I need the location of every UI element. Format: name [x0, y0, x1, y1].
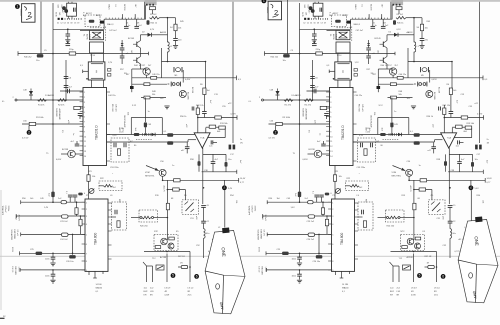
- tick out rail (left): [236, 76, 238, 81]
- capacitor C9 (right): [324, 113, 329, 115]
- resistor R23 (right): [321, 208, 324, 215]
- IC2 right dashed box (left): [111, 138, 129, 162]
- svg-text:0,77V: 0,77V: [477, 114, 483, 116]
- wire C4 bot (right): [313, 36, 315, 39]
- speaker switch SW1 (right): [403, 265, 411, 270]
- wire x167 out (right): [413, 254, 415, 283]
- capacitor C41 (right): [308, 201, 314, 204]
- ground C28 (left): [50, 280, 55, 283]
- head lower block (right): [336, 42, 350, 53]
- svg-text:AUFNAHME: AUFNAHME: [58, 109, 61, 121]
- tick in1 (right): [266, 200, 268, 204]
- capacitor C34 (right): [380, 133, 386, 136]
- resistor R6 (left): [203, 88, 206, 95]
- wire IC1 left tick (left): [83, 70, 89, 72]
- pot terminal a (right): [387, 217, 389, 219]
- svg-text:R1 47k: R1 47k: [38, 104, 44, 106]
- wire panel right a (right): [390, 2, 392, 20]
- wire D1 top (left): [30, 89, 32, 91]
- wire osc stub (right): [318, 2, 320, 4]
- wire rail y180 (left): [163, 179, 239, 181]
- trimmer P1 (right): [336, 189, 341, 194]
- wire node4 stub (left): [223, 180, 225, 185]
- wire L2 bot (left): [203, 238, 205, 258]
- wire IC1 top b (left): [103, 54, 105, 62]
- pot terminal b (left): [152, 217, 154, 219]
- pot terminal a (left): [140, 217, 142, 219]
- wire D2 right (right): [398, 34, 414, 36]
- capacitor C7 (right): [310, 85, 315, 87]
- wire cap col b (left): [136, 19, 138, 26]
- svg-text:0,65V: 0,65V: [303, 159, 309, 161]
- resistor R3 (right): [276, 122, 283, 125]
- svg-text:6: 6: [196, 275, 198, 279]
- wire C27 b (left): [52, 259, 54, 262]
- wire C22 bot (left): [74, 197, 76, 202]
- svg-text:C23 2u2: C23 2u2: [60, 221, 68, 223]
- svg-text:25m: 25m: [434, 295, 438, 297]
- wire main bus x53 (right): [299, 3, 301, 192]
- resistor R9 (right): [396, 16, 406, 19]
- svg-text:56k: 56k: [152, 94, 155, 96]
- svg-text:1n: 1n: [319, 133, 321, 135]
- svg-text:0,3 mV: 0,3 mV: [22, 138, 29, 140]
- svg-text:D1 AA113: D1 AA113: [45, 94, 55, 97]
- transistor T7 (right): [382, 42, 384, 48]
- resistor R19 (right): [413, 203, 416, 210]
- wire T10 down (right): [408, 176, 410, 180]
- transistor T12 (left): [161, 238, 168, 245]
- resistor R33 (right): [396, 7, 402, 10]
- ground eq (left): [164, 106, 169, 109]
- tick in4 (left): [19, 251, 21, 255]
- wire IC3 gnd pin (left): [94, 271, 96, 278]
- svg-text:0,77V: 0,77V: [231, 114, 237, 116]
- wire out rail (left): [144, 251, 190, 253]
- svg-text:REGLER: REGLER: [14, 267, 16, 276]
- svg-text:22k: 22k: [373, 112, 375, 115]
- svg-text:AC188: AC188: [407, 256, 414, 259]
- capacitor C27 (left): [51, 256, 56, 258]
- wire speaker feed (left): [224, 190, 226, 227]
- wire L1 top (left): [167, 18, 169, 43]
- svg-text:s: s: [96, 70, 98, 74]
- transistor T12 (right): [407, 238, 414, 245]
- wire T7 bot (right): [386, 48, 388, 53]
- svg-text:WA240: WA240: [342, 287, 349, 290]
- wire right bus (left): [232, 2, 234, 143]
- wire R9 right (right): [406, 17, 422, 19]
- svg-text:NUR BEI: NUR BEI: [302, 109, 304, 118]
- wire R28 left (right): [425, 266, 428, 268]
- svg-text:LS 0,9: LS 0,9: [165, 288, 172, 290]
- diode D4 (left): [152, 133, 156, 137]
- resistor R21 (left): [87, 175, 90, 182]
- svg-text:R51 680: R51 680: [358, 104, 360, 112]
- transistor pair T1 T2 (left): [62, 6, 66, 10]
- wire branch b2b (right): [472, 167, 474, 172]
- svg-text:s: s: [342, 70, 344, 74]
- wire C42 stub (right): [313, 41, 315, 44]
- svg-text:C46 22u: C46 22u: [399, 74, 407, 76]
- resistor R28 (left): [181, 265, 188, 268]
- resistor R30 (left): [167, 133, 173, 136]
- svg-text:C3: C3: [74, 23, 76, 25]
- wire rail y29 (left): [53, 28, 104, 30]
- capacitor C37 (left): [211, 161, 216, 163]
- svg-text:0,25mV: 0,25mV: [251, 206, 253, 214]
- diode D1 (left): [29, 91, 33, 95]
- wire opamp in2 (left): [205, 128, 207, 133]
- svg-text:R3 100k: R3 100k: [36, 117, 43, 119]
- svg-text:250mV: 250mV: [264, 215, 266, 222]
- wire node2 stub (left): [28, 126, 30, 130]
- wire C10 up (right): [323, 141, 325, 144]
- switch contacts (left): [142, 133, 144, 136]
- tape head K1 (left): [22, 4, 35, 23]
- wire T9 bot (right): [392, 75, 394, 78]
- capacitor C42 (right): [312, 43, 317, 45]
- wire C22 bot (right): [321, 197, 323, 202]
- IC1 side marks (right): [354, 69, 357, 72]
- wire R21 top (left): [88, 166, 90, 175]
- tick in3 (right): [266, 233, 268, 237]
- IC2 left pins (right): [326, 92, 333, 158]
- wire left col a (left): [121, 44, 123, 48]
- svg-text:C23 2u2: C23 2u2: [307, 221, 315, 223]
- wire pot right (left): [154, 217, 168, 219]
- inductor L2 (right): [450, 229, 452, 239]
- svg-text:0,45V: 0,45V: [185, 79, 191, 81]
- wire C42 stub (left): [67, 41, 69, 44]
- IC2 right pins (right): [353, 91, 357, 93]
- zener diode D3 (right): [432, 203, 440, 212]
- wire play rail (left): [107, 134, 196, 136]
- wire x167 bus (right): [413, 180, 415, 240]
- resistor R35 (right): [390, 83, 396, 86]
- wire cap col b (right): [382, 19, 384, 26]
- wire T8 emit (left): [140, 64, 142, 69]
- svg-text:1 TA2: 1 TA2: [14, 215, 17, 221]
- capacitor C35 (left): [191, 107, 193, 111]
- svg-text:R9 1k2: R9 1k2: [397, 14, 404, 16]
- resistor R26 (left): [155, 246, 161, 249]
- capacitor C38 (left): [225, 162, 228, 167]
- capacitor C32 (left): [147, 20, 150, 25]
- wire IC3 in3 (left): [21, 233, 85, 235]
- resistor R13 (right): [456, 125, 463, 128]
- driver dashed box (left): [154, 235, 178, 251]
- wire T5 right (left): [75, 153, 83, 155]
- capacitor C6 (left): [64, 76, 69, 78]
- wire T8 emit (right): [386, 64, 388, 69]
- wire rec rail b (right): [435, 139, 443, 141]
- node 6 (left): [194, 274, 199, 279]
- ground eq (right): [411, 106, 416, 109]
- node 2 (left): [27, 130, 32, 135]
- resistor R27 (right): [415, 237, 421, 240]
- svg-text:TONKOPF: TONKOPF: [248, 206, 250, 216]
- wire L1 bot (right): [413, 52, 415, 62]
- svg-text:D1 AA113: D1 AA113: [292, 94, 302, 97]
- wire IC3 in1 (right): [267, 201, 331, 203]
- svg-text:0,3 mV: 0,3 mV: [269, 138, 276, 140]
- svg-text:C45 n15: C45 n15: [361, 104, 363, 112]
- node 6 (right): [441, 274, 446, 279]
- capacitor C20 electrolytic (right): [298, 192, 301, 198]
- wire relay rail a (left): [132, 77, 237, 79]
- wire dbox link (right): [358, 216, 363, 218]
- svg-text:REGLER: REGLER: [261, 267, 263, 276]
- ground C4 (right): [312, 40, 317, 43]
- svg-text:C53 220u: C53 220u: [110, 167, 119, 169]
- svg-text:333Hz: 333Hz: [7, 206, 9, 212]
- capacitor C17 (left): [210, 140, 212, 144]
- wire D5 stub (right): [368, 40, 370, 43]
- svg-text:WA111: WA111: [19, 9, 22, 17]
- svg-text:0,65V: 0,65V: [56, 159, 62, 161]
- capacitor C24 electrolytic (right): [308, 233, 315, 236]
- wire IC1 bot b (right): [349, 80, 351, 88]
- wire T10 down (left): [162, 176, 164, 180]
- svg-text:1,55V: 1,55V: [264, 267, 266, 273]
- bias pot dashed box (left): [139, 210, 158, 222]
- wire IC1 bot a (left): [90, 80, 92, 88]
- svg-text:AUFN: AUFN: [86, 34, 89, 40]
- wire C27 a (right): [299, 253, 301, 257]
- capacitor C26 electrolytic (left): [69, 255, 76, 258]
- svg-text:BC238: BC238: [370, 4, 372, 11]
- switch gang dashed line (left): [136, 139, 152, 141]
- svg-text:C2: C2: [60, 23, 62, 25]
- potentiometer R20 (right): [389, 216, 398, 219]
- svg-text:b4: b4: [64, 23, 66, 25]
- svg-text:GLEICHLAUF: GLEICHLAUF: [123, 115, 126, 128]
- capacitor C29 (left): [114, 210, 116, 215]
- svg-text:R56 1k: R56 1k: [180, 116, 186, 118]
- svg-text:AC176: AC176: [163, 186, 166, 193]
- svg-text:R32 12k: R32 12k: [196, 105, 203, 107]
- svg-text:33k: 33k: [371, 73, 374, 75]
- junction dots (right): [299, 53, 301, 55]
- wire C21 bot (left): [69, 197, 71, 202]
- node 2 (right): [273, 130, 278, 135]
- wire branch b1b (right): [459, 164, 461, 172]
- resistor R9 (left): [150, 16, 160, 19]
- switch contacts (right): [388, 133, 390, 136]
- zener diode D3 (left): [186, 203, 194, 212]
- svg-text:5: 5: [172, 274, 174, 278]
- svg-text:5: 5: [419, 274, 421, 278]
- svg-text:BC149: BC149: [375, 38, 382, 40]
- svg-text:C24 2u2: C24 2u2: [307, 239, 315, 241]
- wire C27 a (left): [52, 253, 54, 257]
- wire C9 down (right): [326, 116, 328, 120]
- capacitor C7 (left): [64, 85, 69, 87]
- svg-text:R40 2k2: R40 2k2: [271, 57, 279, 59]
- wire K2 rail (right): [388, 97, 413, 99]
- svg-text:10k: 10k: [339, 176, 342, 178]
- connector blob (right): [347, 21, 351, 24]
- wire right bus (right): [479, 2, 481, 143]
- relay contact blob (right): [377, 86, 381, 89]
- switch gang dashed vertical (right): [351, 27, 353, 42]
- resistor R17 (right): [420, 179, 427, 182]
- wire branch b2 (right): [472, 154, 474, 161]
- wire branch b2b (left): [225, 167, 227, 172]
- wire R24 a (left): [80, 216, 82, 219]
- svg-text:C47 4n7: C47 4n7: [109, 30, 117, 32]
- wire R32 top (left): [197, 105, 199, 108]
- wire IC3 bottom stub a (left): [88, 271, 90, 275]
- record head block (left): [90, 31, 104, 40]
- wire C33 down (right): [391, 127, 393, 134]
- capacitor C18 (left): [201, 205, 206, 207]
- svg-text:R20 250: R20 250: [140, 226, 148, 228]
- resistor R34 (right): [397, 76, 403, 79]
- cabinet divider lines (right): [458, 260, 476, 264]
- svg-text:C26 10u: C26 10u: [313, 261, 321, 263]
- svg-text:C47 4n7: C47 4n7: [356, 30, 364, 32]
- resistor R23 (left): [75, 208, 78, 215]
- svg-text:AA118: AA118: [407, 31, 414, 34]
- capacitor C22 (left): [73, 194, 78, 196]
- capacitor C33 electrolytic (left): [144, 122, 147, 127]
- tick level rail (left): [236, 115, 238, 120]
- wire C19 bot (left): [203, 223, 205, 229]
- transistor T6 (left): [179, 91, 186, 98]
- left margin mark: [0, 317, 5, 319]
- svg-text:AA118: AA118: [160, 31, 167, 34]
- headphone jack (left): [146, 266, 148, 282]
- lamp symbol (left): [174, 67, 182, 72]
- wire C18 bot (right): [449, 208, 451, 221]
- wire C17 stub (right): [460, 141, 464, 143]
- svg-text:LS 1,0: LS 1,0: [434, 288, 441, 290]
- wire speaker feed (right): [470, 190, 472, 227]
- wire K2 rail (left): [141, 97, 166, 99]
- svg-text:b2: b2: [304, 23, 306, 25]
- wire y91 rail (left): [60, 90, 83, 92]
- capacitor C6 (right): [310, 76, 315, 78]
- IC3 left pins (right): [328, 201, 331, 203]
- svg-text:WA21: WA21: [354, 4, 357, 10]
- resistor R10 (right): [420, 24, 423, 31]
- wire node4 stub (right): [470, 180, 472, 185]
- svg-text:R45 1k: R45 1k: [397, 23, 403, 25]
- svg-text:R13 56k: R13 56k: [467, 123, 474, 125]
- resistor R4 (left): [74, 106, 81, 109]
- capacitor C23 electrolytic (left): [62, 215, 69, 218]
- wire mid corner a (left): [161, 48, 163, 78]
- capacitor C36 (left): [185, 146, 190, 148]
- cabinet terminal block (right): [475, 217, 482, 223]
- svg-text:NETZTEIL: NETZTEIL: [145, 176, 155, 178]
- wire left col c (right): [368, 58, 370, 64]
- capacitor C19 (right): [448, 220, 453, 222]
- svg-text:2: 2: [275, 131, 277, 135]
- wire lamp drop (right): [429, 70, 431, 83]
- oscillator box (left): [67, 3, 77, 16]
- wire branch b1 (right): [459, 154, 461, 161]
- wire R22 left (left): [99, 185, 104, 187]
- wire opamp in2 (right): [451, 128, 453, 133]
- svg-text:NUR BEI: NUR BEI: [55, 109, 57, 118]
- wire bus x66 (right): [312, 60, 314, 100]
- resistor R7 (right): [461, 116, 468, 119]
- tick H1 right (right): [394, 52, 396, 56]
- resistor R4 (right): [320, 106, 327, 109]
- svg-text:2: 2: [28, 131, 30, 135]
- capacitor C12 (left): [123, 143, 125, 148]
- svg-text:BC238: BC238: [309, 149, 316, 151]
- transistor pair T1 T2 (right): [309, 6, 313, 10]
- capacitor C20 electrolytic (left): [51, 192, 54, 198]
- tick in5 (left): [19, 268, 21, 272]
- ground C27 (left): [50, 263, 55, 266]
- wire IC1 top a (right): [337, 54, 339, 62]
- wire head left (right): [327, 30, 337, 32]
- svg-text:WA21: WA21: [108, 4, 111, 10]
- svg-text:WIED: WIED: [88, 34, 90, 40]
- svg-text:BC148B: BC148B: [187, 92, 189, 100]
- IC3 right pins (left): [108, 202, 112, 204]
- resistor R36 (right): [391, 96, 397, 99]
- resistor R17 (left): [174, 179, 181, 182]
- wire T7 bot (left): [140, 48, 142, 53]
- capacitor C30 (left): [124, 25, 129, 27]
- capacitor C41 (left): [61, 201, 67, 204]
- wire IC1 bot a (right): [337, 80, 339, 88]
- svg-text:1n: 1n: [128, 25, 130, 27]
- tick rail y171 (right): [482, 170, 484, 174]
- capacitor C30 (right): [371, 25, 376, 27]
- svg-text:0,5 mV: 0,5 mV: [16, 230, 18, 237]
- wire D2 right (left): [152, 34, 168, 36]
- wire C36 v2 (right): [433, 149, 435, 154]
- wire bus x66 (left): [65, 60, 67, 100]
- wire L1 top (right): [413, 18, 415, 43]
- transistor T13 (left): [168, 243, 174, 249]
- node 1 marker (right, cropped): [262, 0, 267, 3]
- contact row (left): [58, 18, 60, 20]
- transistor T10 (right): [406, 169, 413, 176]
- node 1 marker: [15, 4, 20, 9]
- wire C13 bot (left): [203, 114, 205, 118]
- diode D4 (right): [398, 133, 402, 137]
- wire IC1 top b (right): [349, 54, 351, 62]
- svg-text:NTC: NTC: [154, 231, 159, 233]
- wire L2 bot (right): [449, 238, 451, 258]
- wire x72 drop (left): [72, 234, 74, 254]
- wire stub p6 (left): [134, 14, 136, 19]
- tick IC3 gnd (right): [340, 277, 344, 279]
- wire C36 v (right): [433, 143, 435, 147]
- svg-text:TCA: TCA: [447, 137, 452, 140]
- diode D2 (right): [394, 33, 398, 37]
- inductor L1 (left): [168, 42, 170, 52]
- junction dots (left): [52, 53, 54, 55]
- svg-text:1,4V: 1,4V: [44, 207, 49, 209]
- capacitor C11 (left): [113, 143, 115, 148]
- wire T7 top (left): [140, 35, 142, 41]
- wire mid rail y61 (right): [408, 61, 452, 63]
- svg-text:0,5W: 0,5W: [411, 295, 416, 297]
- wire C17 stub (left): [213, 141, 217, 143]
- wire dbox link (left): [112, 216, 117, 218]
- wire D1 top (right): [277, 89, 279, 91]
- wire IC3 in2 (left): [16, 215, 85, 217]
